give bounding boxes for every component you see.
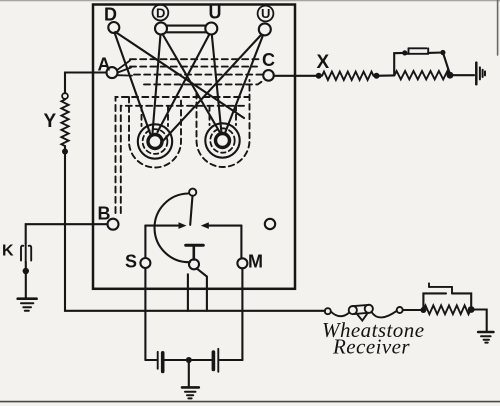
- terminal U1: [205, 23, 217, 35]
- terminal D2: [155, 23, 167, 35]
- resistor in receiver shunt: [424, 305, 471, 314]
- resistor Y zigzag: [61, 100, 68, 147]
- wire D1 to left coil: [115, 33, 151, 135]
- wire A to left corner: [65, 73, 107, 94]
- terminal U2: [259, 23, 271, 35]
- circled label U2: [258, 6, 274, 22]
- svg-text:U: U: [261, 6, 270, 21]
- shunt left riser: [394, 53, 405, 76]
- wire U2 to right coil: [225, 35, 263, 133]
- terminal S: [140, 258, 150, 268]
- receiver shunt right dot: [468, 306, 475, 313]
- ground below battery: [182, 387, 199, 398]
- condenser plug bottom right: [429, 283, 452, 293]
- wire tongue to long wire: [187, 274, 189, 311]
- key K contact springs: [21, 244, 31, 263]
- resistor in shunt: [395, 71, 450, 79]
- svg-text:U: U: [209, 3, 222, 23]
- wire D2 to left coil: [153, 35, 161, 134]
- wire D2 to right coil: [163, 34, 221, 134]
- needle: [190, 196, 192, 225]
- left coil dashed circle: [143, 129, 168, 154]
- right coil dashed circle: [210, 128, 234, 152]
- terminal C: [263, 70, 274, 81]
- terminal A: [107, 67, 118, 78]
- left coil dashed core lines: [142, 106, 169, 126]
- line earth symbol: [476, 63, 485, 85]
- wire C to X node: [274, 75, 319, 77]
- battery cell 2 plates: [213, 349, 218, 372]
- wire right contact to M: [240, 226, 242, 259]
- wire left contact to S: [144, 226, 146, 258]
- junction dot below Y: [62, 149, 68, 155]
- terminal M: [237, 258, 247, 268]
- wire key to ground: [25, 262, 27, 298]
- resistor X zigzag: [322, 72, 374, 80]
- receiver body: [331, 305, 397, 321]
- dashed yoke row 1: [130, 58, 259, 60]
- strap link between D2 and U1: [167, 26, 206, 33]
- left contact arrow: [145, 222, 186, 229]
- svg-text:S: S: [125, 252, 137, 272]
- battery wires: [145, 359, 242, 361]
- svg-text:B: B: [98, 204, 111, 224]
- right coil core ring: [216, 134, 230, 148]
- shunt right drop: [443, 53, 450, 74]
- wire B to key K: [26, 224, 108, 243]
- dashed magnet outer rect: [116, 97, 250, 213]
- dashed yoke row 4: [144, 80, 264, 84]
- left coil outer circle: [138, 124, 172, 158]
- node dot X: [316, 73, 322, 79]
- wire M down to battery: [241, 268, 243, 360]
- wire S down to battery: [144, 268, 146, 360]
- svg-text:K: K: [2, 243, 14, 260]
- tongue T glyph: [186, 245, 204, 259]
- shunt top wire: [428, 51, 443, 54]
- receiver shunt top wire: [452, 293, 471, 306]
- terminal T: [189, 259, 199, 269]
- terminal B: [108, 219, 119, 230]
- receiver left terminal circle: [325, 308, 331, 314]
- right coil dashed core lines: [210, 106, 237, 125]
- wire U1 to left coil: [158, 34, 210, 132]
- svg-text:Y: Y: [44, 111, 57, 132]
- battery junction dot: [186, 357, 192, 363]
- circled label D2: [153, 5, 169, 21]
- receiver shunt left dot: [420, 307, 426, 313]
- receiver right terminal circle: [397, 307, 403, 313]
- svg-text:X: X: [317, 52, 330, 73]
- A terminal fan lines: [117, 61, 132, 76]
- wire Y down and long wire to receiver: [65, 146, 325, 311]
- right coil dashed horseshoe: [197, 80, 250, 167]
- wire U1 to right coil: [212, 35, 222, 134]
- shunt output dot: [447, 72, 454, 79]
- svg-text:D: D: [156, 5, 165, 20]
- wire to line earth: [450, 74, 474, 76]
- receiver shunt riser: [423, 293, 446, 310]
- node dot after X: [374, 73, 380, 79]
- right contact arrow: [201, 222, 242, 229]
- wire D1 long diagonal right: [116, 32, 245, 118]
- battery cell 1 plates: [158, 352, 163, 372]
- wire U2 to left coil: [161, 35, 261, 143]
- shunt right dot: [440, 50, 445, 55]
- wire receiver to shunt: [403, 309, 424, 311]
- wire to receiver ground: [471, 310, 487, 332]
- dashed magnet inner rect: [121, 106, 247, 213]
- svg-text:M: M: [248, 252, 263, 272]
- dashed yoke row 2: [130, 66, 257, 68]
- page top border: [0, 0, 500, 2]
- pivot circle: [189, 189, 196, 196]
- svg-text:Receiver: Receiver: [332, 335, 410, 359]
- left coil core ring: [148, 135, 162, 149]
- relay box outline: [93, 5, 295, 289]
- page bottom border: [0, 401, 500, 403]
- svg-text:D: D: [104, 5, 117, 25]
- shunt left dot: [402, 50, 407, 55]
- terminal D1: [108, 22, 119, 33]
- armature arc: [155, 194, 190, 263]
- Y top small circle: [62, 93, 68, 99]
- wire T terminal to long wire: [197, 268, 207, 311]
- ground below K: [18, 299, 37, 311]
- wire battery to ground: [188, 360, 190, 386]
- condenser plug top right: [406, 48, 429, 54]
- page right border segment: [497, 0, 499, 55]
- svg-text:C: C: [262, 50, 275, 70]
- wire to shunt node: [377, 74, 395, 77]
- ground below receiver: [478, 332, 493, 343]
- key K junction dot: [23, 268, 29, 274]
- spare hole O: [265, 219, 275, 229]
- left coil dashed horseshoe: [129, 97, 181, 168]
- dashed yoke row 3 bending to C: [134, 74, 262, 76]
- right coil outer circle: [205, 123, 239, 157]
